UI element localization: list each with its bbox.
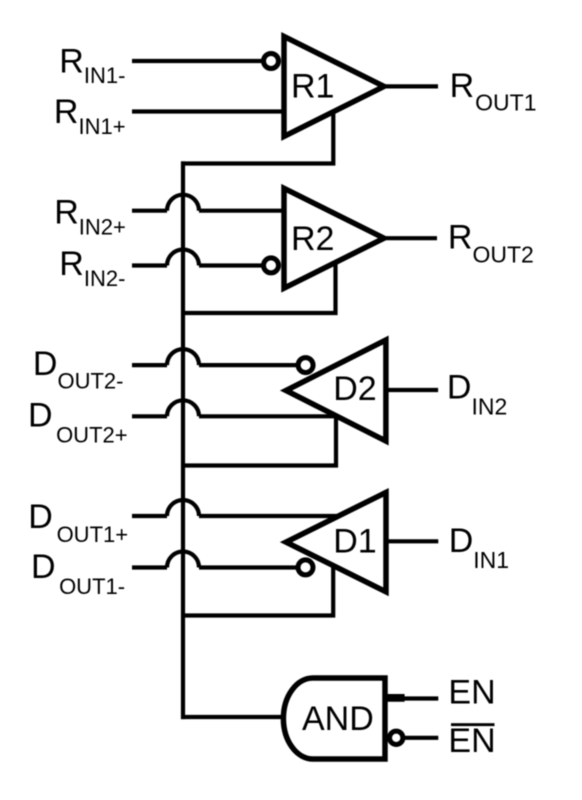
crossover hop R_IN2+ [167, 195, 199, 211]
wire AND output to bus [181, 715, 285, 719]
svg-text:D1: D1 [333, 523, 376, 561]
label EN bar with overline [448, 722, 495, 760]
wire D_OUT1+ [132, 514, 167, 518]
svg-text:R2: R2 [291, 220, 334, 258]
wire EN bar [404, 736, 438, 740]
inverting output bubble of D2 [298, 358, 313, 373]
wire R_IN2+ [132, 209, 167, 213]
wire R_IN2- [132, 263, 167, 267]
wire R_IN1+ [132, 109, 286, 113]
wire R_IN2+ right [199, 209, 286, 213]
wire D_OUT1+ right [199, 514, 339, 518]
wire D_OUT2+ right [199, 414, 338, 418]
crossover hop R_IN2- [167, 250, 199, 266]
svg-text:D2: D2 [333, 370, 376, 408]
svg-text:EN: EN [448, 722, 495, 760]
enable wire D1 (from triangle bottom to bus) [181, 565, 333, 616]
crossover hop D_OUT1+ [167, 500, 199, 516]
svg-text:R1: R1 [291, 68, 334, 106]
enable wire D2 (from triangle bottom to bus) [181, 416, 336, 466]
crossover hop D_OUT1- [167, 552, 199, 568]
enable wire R2 (from triangle bottom to bus) [181, 261, 336, 313]
inverting input bubble of R1 [264, 54, 279, 69]
receiver R1 [284, 36, 384, 136]
AND gate U1 [283, 678, 385, 759]
receiver R2 [284, 188, 384, 288]
driver D1 [286, 492, 386, 591]
wire R_IN1- [132, 59, 263, 63]
wire D_IN2 [386, 388, 438, 392]
wire D_OUT2- right [199, 363, 296, 367]
driver D2 [286, 340, 386, 441]
crossover hop D_OUT2+ [167, 400, 199, 416]
wire D_IN1 [386, 539, 438, 543]
svg-text:EN: EN [448, 673, 495, 711]
svg-text:AND: AND [302, 700, 374, 738]
enable wire R1 (from triangle bottom to bus) [181, 110, 333, 164]
enable bus (vertical) [181, 161, 185, 719]
crossover hop D_OUT2- [167, 349, 199, 365]
inverting output bubble of D1 [298, 560, 313, 575]
wire D_OUT1- right [199, 565, 296, 569]
inverting input bubble of R2 [264, 258, 279, 273]
wire EN [385, 694, 405, 702]
wire D_OUT2- [132, 363, 167, 367]
inverting input bubble of AND gate (EN bar) [390, 731, 403, 744]
wire D_OUT2+ [132, 414, 167, 418]
wire R_IN2- right [199, 263, 263, 267]
wire D_OUT1- [132, 565, 167, 569]
wire R_OUT1 [382, 84, 438, 88]
wire R_OUT2 [382, 236, 437, 240]
